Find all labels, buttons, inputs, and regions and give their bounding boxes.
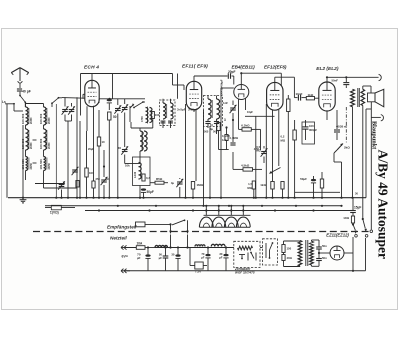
power transformer secondary bbox=[310, 241, 314, 265]
ground main left bbox=[20, 196, 27, 203]
resistor small left lower bbox=[76, 181, 79, 198]
wire EF11 top cap bbox=[194, 76, 228, 81]
tube EF12 bbox=[267, 82, 283, 110]
zerhacker resistor bbox=[238, 246, 253, 250]
svg-text:20/50: 20/50 bbox=[29, 142, 33, 149]
label 30pF right bbox=[355, 192, 358, 196]
resistor R5 horizontal bbox=[150, 177, 168, 198]
wire EB4 top bbox=[240, 72, 242, 84]
trimmer capacitor osc 2 bbox=[121, 99, 128, 147]
wire transformer leads bbox=[260, 241, 300, 267]
wire top rail EB4 to EF12 bbox=[241, 73, 281, 87]
svg-text:10: 10 bbox=[102, 140, 106, 144]
zerhacker box bbox=[234, 241, 260, 267]
resistor 10k ECH4 lower bbox=[97, 110, 105, 198]
label 0.5MOhm volume bbox=[257, 145, 261, 152]
capacitor 20pF to EB4 bbox=[228, 70, 235, 84]
capacitor 30uF mid2 bbox=[219, 246, 228, 270]
wire speaker leads bbox=[363, 86, 372, 219]
svg-text:4,5kΩ: 4,5kΩ bbox=[241, 164, 250, 168]
coil L2 input bank bbox=[39, 107, 51, 125]
choke filter 1 bbox=[155, 245, 195, 247]
svg-text:20/50: 20/50 bbox=[47, 117, 51, 124]
label tube EZ11(EZ12) bbox=[326, 232, 349, 237]
svg-text:10A: 10A bbox=[137, 242, 144, 246]
svg-text:1nF: 1nF bbox=[222, 138, 227, 142]
svg-text:505: 505 bbox=[204, 130, 209, 134]
svg-text:15µF: 15µF bbox=[354, 206, 361, 210]
wire input verticals bbox=[56, 97, 77, 197]
svg-text:1kΩ: 1kΩ bbox=[260, 183, 266, 187]
svg-text:EB4(EB11): EB4(EB11) bbox=[232, 65, 256, 70]
switch antenna input bbox=[19, 95, 26, 107]
oscillator coil lower section bbox=[133, 128, 151, 198]
svg-text:250: 250 bbox=[96, 177, 101, 181]
wire input top rail bbox=[62, 98, 99, 99]
wire IF1 connections bbox=[145, 99, 178, 128]
lamp 7.5V dial bbox=[190, 248, 207, 274]
IF transformer 1 windings bbox=[161, 103, 174, 123]
svg-text:0,1/2,5: 0,1/2,5 bbox=[222, 134, 230, 138]
svg-text:7,5V: 7,5V bbox=[195, 270, 201, 274]
svg-text:Blaupunkt: Blaupunkt bbox=[371, 121, 378, 150]
svg-text:10Ω: 10Ω bbox=[343, 216, 349, 220]
svg-text:1MΩ: 1MΩ bbox=[197, 183, 204, 187]
power transformer core bbox=[306, 240, 308, 266]
switch power on bbox=[136, 219, 188, 231]
output transformer core bbox=[358, 88, 360, 107]
capacitor 15uF right bbox=[350, 198, 361, 226]
resistor 50 ECH4 cathode bbox=[108, 112, 117, 198]
svg-text:20/50: 20/50 bbox=[47, 142, 51, 149]
svg-text:40/38 nF: 40/38 nF bbox=[336, 124, 347, 128]
wire EF11 lower verticals bbox=[186, 88, 222, 206]
capacitor electrolytic ECH4 cathode bbox=[107, 99, 112, 110]
wire screen joint bbox=[219, 131, 229, 198]
label tube EF12(EF6) bbox=[264, 65, 287, 70]
resistor 6.3k diode load bbox=[239, 124, 261, 131]
svg-text:0,1MΩ: 0,1MΩ bbox=[230, 136, 239, 140]
mechanical link dash-dot bbox=[345, 107, 347, 143]
coil L6 input bank bbox=[39, 157, 51, 171]
capacitor 30pF padding bbox=[118, 146, 128, 164]
wire EB4 right verticals bbox=[245, 116, 275, 197]
wire HT rail bbox=[45, 205, 343, 207]
trimmer capacitor input 1 bbox=[62, 97, 69, 121]
capacitor IF2 tuning b bbox=[214, 119, 219, 128]
wire secondary line right bbox=[295, 191, 340, 193]
svg-text:µF: µF bbox=[137, 256, 141, 260]
svg-text:Netzteil: Netzteil bbox=[110, 235, 127, 240]
label Zerhacker bbox=[234, 267, 255, 275]
svg-text:50n: 50n bbox=[322, 256, 327, 260]
capacitor IF2 tuning a bbox=[205, 119, 210, 128]
label 10nF EB4 col bbox=[247, 110, 253, 114]
choke filter 2 bbox=[195, 245, 211, 248]
resistor 100 left lower bbox=[85, 131, 94, 198]
trimmer 1nF EB4 bbox=[223, 101, 236, 121]
svg-text:2kΩ: 2kΩ bbox=[344, 146, 350, 150]
wire power feed drops bbox=[169, 224, 189, 247]
capacitor 30uF input bbox=[171, 246, 180, 270]
svg-text:100·500: 100·500 bbox=[21, 113, 25, 124]
resistor 0.2M screen EF12 bbox=[293, 120, 296, 198]
resistor 0.3M bbox=[142, 170, 150, 190]
wire top rail output bbox=[326, 76, 379, 78]
label 6V= bbox=[122, 255, 129, 259]
wire EL2 top bbox=[326, 77, 328, 82]
label Empfaengerteil bbox=[107, 224, 137, 229]
resistor 0.1M EL2 grid vertical bbox=[287, 95, 290, 198]
wire EB4 below bbox=[224, 99, 246, 143]
svg-text:L: L bbox=[132, 103, 134, 107]
svg-text:20/50: 20/50 bbox=[29, 162, 33, 169]
svg-text:µF: µF bbox=[159, 256, 163, 260]
capacitor 50n rect 1 bbox=[312, 240, 328, 253]
svg-text:ECH 4: ECH 4 bbox=[84, 65, 99, 71]
tube EB4 duodiode bbox=[234, 85, 249, 100]
svg-text:EZ11(EZ12): EZ11(EZ12) bbox=[326, 232, 349, 237]
wire grid box oscillator bbox=[113, 74, 178, 99]
svg-text:3: 3 bbox=[224, 118, 226, 122]
trimmer capacitor 8uF det bbox=[58, 181, 65, 197]
connector output top bbox=[379, 74, 382, 80]
capacitor 250pF lower bbox=[92, 110, 95, 198]
power transformer primary bbox=[298, 241, 302, 267]
svg-text:20µF: 20µF bbox=[88, 147, 94, 151]
trimmer capacitor input 2 bbox=[68, 103, 75, 121]
svg-text:20/50: 20/50 bbox=[29, 117, 33, 124]
terminal battery plus bbox=[121, 245, 130, 249]
svg-text:Empfängsteil: Empfängsteil bbox=[107, 224, 137, 229]
svg-text:3+5pF: 3+5pF bbox=[177, 108, 186, 112]
oscillator coil with core bbox=[140, 107, 152, 124]
svg-text:40 pF: 40 pF bbox=[22, 89, 31, 93]
resistor 1k EF12 cathode bbox=[260, 182, 274, 198]
svg-text:10µF: 10µF bbox=[247, 110, 253, 114]
tube ECH4 bbox=[85, 80, 99, 106]
capacitor 0.1uF input bbox=[159, 246, 169, 270]
svg-text:20/50: 20/50 bbox=[47, 162, 51, 169]
resistor 0.1M screen bbox=[225, 126, 239, 140]
svg-text:µF: µF bbox=[201, 256, 205, 260]
svg-text:MΩ: MΩ bbox=[257, 148, 261, 152]
trimmer lower left bbox=[101, 150, 108, 198]
label tube ECH 4 bbox=[84, 65, 99, 71]
switch arrows to power section bbox=[353, 218, 368, 237]
svg-text:50n: 50n bbox=[322, 244, 327, 248]
fuse 10A bbox=[130, 242, 155, 250]
resistor 1.5M AVC bbox=[247, 172, 255, 198]
svg-text:100·500: 100·500 bbox=[39, 159, 43, 170]
wire ECH4 mid rail bbox=[99, 98, 145, 103]
svg-text:150: 150 bbox=[287, 247, 292, 251]
wire EB4 grid link bbox=[221, 87, 234, 89]
wire power rails bbox=[125, 238, 366, 272]
heater choke humps bbox=[199, 206, 250, 228]
wire EF11 anode to IF2 bbox=[194, 96, 217, 113]
output transformer primary bbox=[351, 77, 355, 197]
capacitor 50n rect 2 bbox=[312, 252, 328, 266]
capacitor 10nF coupling bbox=[294, 92, 306, 101]
capacitor EB4 lower bbox=[222, 134, 236, 152]
coil arrow L bbox=[130, 103, 134, 122]
IF transformer 1 box bbox=[160, 100, 176, 126]
wire chassis rail bbox=[8, 197, 366, 199]
svg-text:EF11( EF9): EF11( EF9) bbox=[182, 64, 208, 70]
IF transformer 2 box bbox=[204, 96, 223, 127]
svg-text:100·500: 100·500 bbox=[39, 113, 43, 124]
svg-text:µF: µF bbox=[219, 256, 223, 260]
svg-text:10k: 10k bbox=[125, 164, 130, 168]
label 505 under IF2 bbox=[204, 130, 218, 134]
coil L4 input bank bbox=[39, 129, 51, 150]
resistor 1k grid stopper EL2 bbox=[306, 93, 319, 100]
svg-text:Σ(VΩ): Σ(VΩ) bbox=[50, 211, 59, 215]
capacitor 100000pF decoupling bbox=[303, 120, 318, 140]
label 50+12/45kpF vertical bbox=[220, 79, 224, 95]
coil L3 input bank bbox=[21, 129, 33, 150]
coil L1 input bank bbox=[21, 107, 33, 125]
svg-text:A/By 49 Autosuper: A/By 49 Autosuper bbox=[376, 150, 391, 260]
label 3+5pF bbox=[177, 108, 198, 112]
tube EL2 bbox=[319, 82, 335, 111]
wire EZ11 connections bbox=[319, 237, 353, 271]
wire mid-left link bbox=[35, 171, 65, 185]
svg-text:50µF: 50µF bbox=[147, 190, 154, 194]
capacitor 50uF electrolytic bbox=[141, 188, 154, 197]
output transformer secondary bbox=[361, 89, 365, 105]
resistor 100 oscillator bbox=[151, 112, 160, 129]
speaker bbox=[368, 89, 384, 107]
svg-text:50µF: 50µF bbox=[300, 177, 307, 181]
svg-text:20pF: 20pF bbox=[228, 70, 235, 74]
label tube EL2(EL2) bbox=[316, 66, 339, 72]
coil L5 input bank bbox=[21, 157, 33, 171]
antenna bbox=[11, 68, 28, 84]
label 20uF osc bbox=[88, 147, 94, 151]
connector output bottom bbox=[371, 115, 383, 121]
svg-text:000pF: 000pF bbox=[309, 128, 317, 132]
tube EF11 bbox=[186, 81, 201, 109]
trimmer 4x50 detector bbox=[254, 146, 268, 163]
label Netzteil bbox=[110, 235, 127, 240]
capacitor buffer 1 bbox=[282, 245, 292, 253]
switch oscillator bbox=[133, 101, 145, 108]
wire lower rail bbox=[85, 209, 353, 211]
choke filter 3 bbox=[211, 244, 234, 247]
svg-text:1nF: 1nF bbox=[223, 101, 228, 105]
switch wave change bbox=[44, 97, 63, 107]
tube EZ11 rectifier bbox=[330, 246, 344, 260]
svg-text:EF12(EF6): EF12(EF6) bbox=[264, 65, 287, 70]
svg-text:R5Ω: R5Ω bbox=[156, 177, 163, 181]
label tube EF11(EF9) bbox=[182, 64, 208, 70]
wire right long vertical bbox=[366, 102, 373, 233]
svg-text:50+12/45kpF: 50+12/45kpF bbox=[220, 79, 224, 95]
resistor 100 EL2 grid leak bbox=[320, 172, 323, 198]
resistor 1M EF11 grid bbox=[191, 182, 203, 198]
resistor 0.5M EF12 grid bbox=[281, 166, 284, 198]
svg-text:100·500: 100·500 bbox=[39, 138, 43, 149]
svg-text:6,3kΩ: 6,3kΩ bbox=[241, 124, 250, 128]
label 0.1uF EL2 bbox=[334, 110, 340, 140]
capacitor 50uF cathode EF12 bbox=[300, 176, 316, 198]
svg-text:50: 50 bbox=[113, 115, 117, 119]
trimmer lower left mid bbox=[72, 160, 79, 198]
svg-text:10nF: 10nF bbox=[296, 92, 303, 96]
zerhacker contacts bbox=[239, 252, 256, 261]
wire EF12 top lead bbox=[275, 77, 295, 97]
capacitor 40pF antenna series bbox=[17, 83, 31, 96]
capacitor 70uF input bbox=[137, 246, 151, 270]
resistor 10 right bbox=[343, 216, 354, 225]
svg-text:4·100: 4·100 bbox=[134, 171, 137, 178]
potentiometer 2k tone bbox=[334, 134, 350, 198]
wire top rail ECH4 to EF11 bbox=[81, 74, 185, 116]
dashed separator line bbox=[33, 231, 371, 233]
capacitor 50nF EL2 anode bbox=[331, 77, 349, 88]
svg-text:40Ω: 40Ω bbox=[287, 256, 293, 260]
svg-text:EL2 (EL2): EL2 (EL2) bbox=[316, 66, 339, 72]
trimmer 4uF EF11 cathode bbox=[171, 178, 183, 198]
svg-text:30: 30 bbox=[171, 253, 175, 257]
svg-text:MΩ: MΩ bbox=[281, 138, 286, 142]
svg-text:0,5: 0,5 bbox=[257, 145, 261, 149]
wire EL2 cathode bbox=[327, 111, 342, 140]
svg-text:30: 30 bbox=[118, 146, 122, 150]
potentiometer wiper arrow bbox=[269, 168, 281, 174]
svg-text:4700: 4700 bbox=[140, 116, 144, 122]
svg-text:50nF: 50nF bbox=[331, 79, 338, 83]
terminal battery minus bbox=[121, 269, 130, 273]
terminal Ls bbox=[2, 100, 23, 198]
capacitor 50uF mid bbox=[201, 246, 210, 270]
wire EF12 verticals bbox=[266, 104, 286, 198]
label 250pF lower left bbox=[96, 177, 110, 181]
vibrator contact box 2 bbox=[263, 239, 278, 265]
svg-text:0,3: 0,3 bbox=[146, 176, 150, 180]
resistor 4.5k AVC bbox=[233, 152, 262, 171]
label 40/38nF bbox=[336, 124, 347, 128]
svg-text:505: 505 bbox=[213, 130, 218, 134]
svg-text:MΩ: MΩ bbox=[247, 186, 252, 190]
wire ECH4 stage verticals bbox=[80, 94, 131, 197]
svg-text:6V=: 6V= bbox=[122, 255, 129, 259]
svg-text:4µ: 4µ bbox=[171, 181, 175, 185]
wire coil bank interconnect bbox=[14, 104, 77, 198]
IF transformer 2 windings bbox=[208, 99, 220, 119]
label tube EB4(EB11) bbox=[232, 65, 256, 70]
component meter sigma bbox=[45, 205, 75, 214]
svg-text:1kΩ: 1kΩ bbox=[308, 93, 314, 97]
capacitor buffer 2 bbox=[282, 255, 293, 261]
resistor 1.2k screen bbox=[210, 123, 220, 131]
wire mid osc bbox=[125, 128, 153, 168]
trimmer capacitor osc 1 bbox=[114, 99, 121, 198]
box tone network bbox=[302, 122, 315, 144]
